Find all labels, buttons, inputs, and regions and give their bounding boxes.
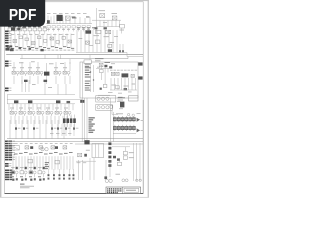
svg-text:PDF: PDF [9, 7, 37, 24]
